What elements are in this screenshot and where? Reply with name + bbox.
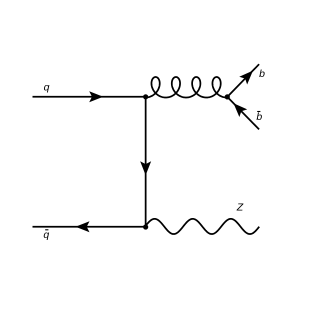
label Z bbox=[236, 202, 244, 214]
wire: internal quark propagator (vertical) bbox=[145, 97, 147, 227]
Z boson wavy line bbox=[146, 219, 260, 234]
vertex dot V3 (q-Z vertex) bbox=[143, 224, 148, 229]
svg-text:q: q bbox=[43, 229, 49, 241]
label qbar bbox=[43, 229, 49, 241]
gluon g (coil) bbox=[145, 77, 226, 98]
label bbar bbox=[256, 111, 262, 123]
outgoing bbar quark line bbox=[227, 97, 259, 129]
vertex dot V1 (q-g vertex) bbox=[143, 94, 148, 99]
arrow on antiquark line qbar (leftward) bbox=[76, 221, 90, 232]
wire: incoming antiquark line qbar bbox=[33, 226, 146, 228]
svg-text:b: b bbox=[259, 68, 265, 80]
svg-text:Z: Z bbox=[236, 202, 244, 214]
svg-text:q: q bbox=[44, 81, 50, 93]
label q bbox=[44, 81, 50, 93]
arrow on b quark line bbox=[239, 71, 253, 85]
arrow on quark line q (rightward) bbox=[89, 91, 103, 102]
wire: incoming quark line q bbox=[33, 96, 146, 98]
arrow on bbar quark line bbox=[234, 103, 248, 117]
outgoing b quark line bbox=[227, 64, 259, 97]
arrow on internal propagator (downward) bbox=[140, 161, 151, 175]
vertex dot V2 (g-bb vertex) bbox=[225, 94, 230, 99]
svg-text:b: b bbox=[256, 111, 262, 123]
label b bbox=[259, 68, 265, 80]
